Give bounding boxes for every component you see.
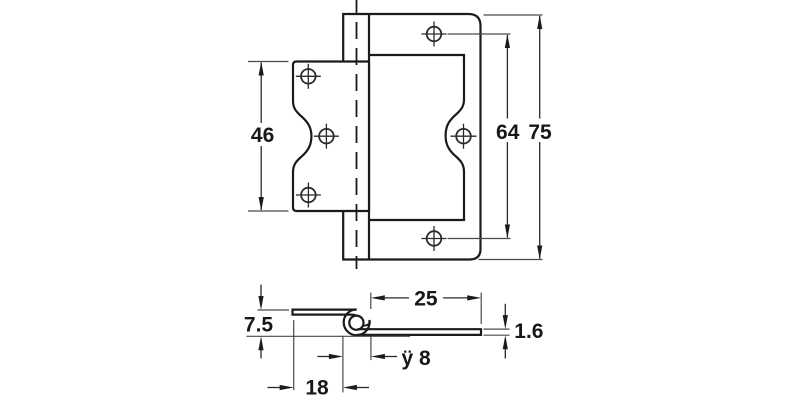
right leaf inner recess contour	[369, 55, 464, 220]
dimension 1.6 arrow down (above)	[504, 304, 506, 316]
dimension 7.5 arrow down (above)	[260, 285, 262, 297]
dimension 25 extension line right	[480, 293, 482, 324]
side view right leaf bar	[357, 329, 481, 335]
dimension 7.5 extension line bottom	[247, 335, 411, 337]
dimension 75 line upper segment	[539, 16, 541, 119]
dimension 7.5 extension line top	[258, 309, 290, 311]
dimension 64 arrow up	[505, 34, 510, 48]
svg-text:7.5: 7.5	[244, 313, 274, 336]
screw hole middle-right	[451, 124, 477, 149]
dimension o8 arrow pointing right	[318, 356, 331, 358]
dimension 75 arrow down	[537, 246, 542, 260]
dimension 25 arrow left	[371, 295, 385, 300]
dimension 46 arrow up	[259, 62, 264, 76]
screw hole middle-left	[314, 124, 339, 149]
dimension 75 extension line top	[484, 14, 543, 16]
dimension o8 extension line right	[370, 336, 372, 360]
dimension 64 line lower segment	[506, 142, 508, 238]
left leaf outline	[293, 62, 369, 212]
hinge right leaf outer outline with knuckle strip	[343, 14, 480, 260]
svg-text:1.6: 1.6	[514, 320, 543, 343]
dimension 46 extension line bottom	[248, 210, 289, 212]
dimension 25 line right segment	[443, 297, 469, 299]
dimension 46 extension line top	[248, 61, 289, 63]
screw hole bottom-left	[296, 183, 321, 208]
screw hole top-left	[296, 64, 321, 89]
dimension 18 arrow pointing left	[357, 387, 369, 389]
dimension 25 extension line left	[370, 293, 372, 309]
dimension 46 line upper segment	[260, 63, 262, 124]
side view left leaf bar	[293, 310, 357, 316]
dimension o8 extension line left	[342, 336, 344, 393]
dimension 18 extension line left	[293, 320, 295, 390]
dimension 75 line lower segment	[539, 142, 541, 259]
dimension 64 extension line top	[448, 33, 511, 35]
side view knuckle pin hole	[349, 316, 363, 330]
dimension 75 extension line bottom	[479, 259, 543, 261]
dimension 46 line lower segment	[260, 146, 262, 210]
screw hole top-right	[422, 22, 447, 47]
screw hole bottom-right	[422, 226, 447, 251]
dimension 75 arrow up	[537, 15, 542, 29]
knuckle strip right edge	[368, 14, 370, 260]
dimension 64 line upper segment	[506, 35, 508, 119]
dimension 25 line left segment	[383, 297, 409, 299]
dimension 7.5 arrow up (below)	[260, 349, 262, 358]
svg-text:25: 25	[414, 287, 438, 310]
dimension 46 arrow down	[259, 197, 264, 211]
dimension 1.6 extension line top	[484, 328, 510, 330]
svg-text:18: 18	[305, 376, 329, 399]
dimension 64 arrow down	[505, 225, 510, 239]
dimension 25 arrow right	[467, 295, 481, 300]
dimension 1.6 arrow up (below)	[504, 349, 506, 359]
dimension 1.6 extension line bottom	[484, 334, 510, 336]
svg-text:75: 75	[528, 121, 552, 144]
svg-text:46: 46	[251, 124, 274, 147]
dimension 18 arrow pointing right	[268, 387, 281, 389]
hinge pin center line (dashed)	[356, 0, 358, 269]
svg-text:64: 64	[496, 121, 520, 144]
side view knuckle curl tail	[363, 320, 370, 326]
side view knuckle outer curl	[344, 309, 370, 335]
dimension o8 arrow pointing left with leader	[384, 356, 397, 358]
dimension 64 extension line bottom	[448, 238, 511, 240]
svg-text:ÿ 8: ÿ 8	[402, 347, 432, 370]
